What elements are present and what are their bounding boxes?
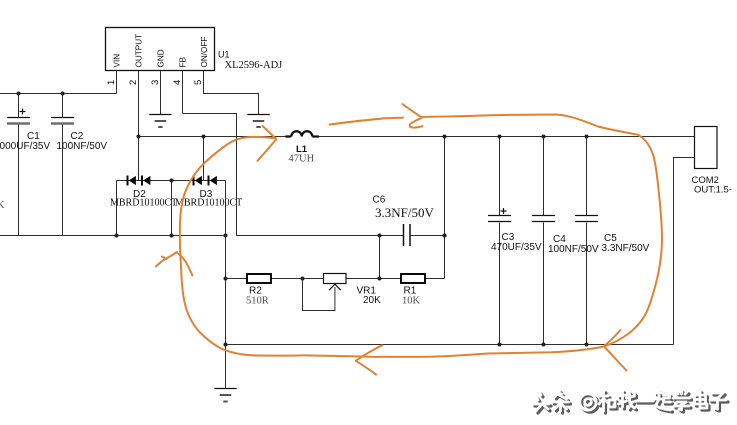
wire D3 center drop — [203, 137, 205, 181]
arrowhead into L1 — [263, 126, 276, 139]
arrowhead bottom mid — [356, 345, 382, 361]
watermark 头条@和我一起学电子 embossed — [533, 391, 728, 413]
svg-text:100NF/50V: 100NF/50V — [57, 141, 108, 152]
connector COM2 box — [695, 127, 718, 169]
svg-text:5: 5 — [193, 80, 204, 85]
wire vout right vertical — [444, 137, 446, 279]
svg-text:ON/OFF: ON/OFF — [200, 37, 209, 68]
svg-text:10K: 10K — [402, 296, 421, 307]
resistor R1 — [401, 274, 425, 283]
wire diode mid down — [171, 181, 173, 236]
wire ground input rail — [0, 235, 226, 237]
wire: left arc of loop — [180, 137, 276, 356]
wire diode row — [117, 180, 226, 182]
wire main ground stem — [225, 181, 227, 389]
pin 4 lead FB — [182, 71, 184, 114]
pin name labels U1 — [113, 34, 210, 68]
wire FB net — [183, 114, 404, 236]
svg-text:470UF/35V: 470UF/35V — [491, 242, 542, 253]
diode D2 (dual) — [127, 176, 151, 186]
ground (bottom) — [214, 389, 236, 402]
svg-text:3: 3 — [150, 80, 161, 85]
svg-text:20K: 20K — [363, 295, 381, 306]
wire COM2 return — [674, 158, 695, 345]
inductor L1 — [285, 131, 319, 136]
capacitor C5 leads — [586, 137, 588, 216]
svg-text:XL2596-ADJ: XL2596-ADJ — [225, 60, 283, 71]
svg-text:3.3NF/50V: 3.3NF/50V — [375, 205, 434, 220]
op-amp U1 regulator box XL2596 — [106, 28, 215, 71]
wire diode left down — [116, 181, 118, 236]
svg-text:K: K — [0, 200, 5, 211]
svg-text:1000UF/35V: 1000UF/35V — [0, 141, 50, 152]
svg-text:47UH: 47UH — [289, 154, 315, 165]
svg-text:U1: U1 — [218, 50, 230, 60]
arrowhead on top run — [403, 104, 422, 118]
capacitor C3 leads — [499, 137, 501, 216]
wire FB tap vertical — [379, 236, 381, 279]
svg-text:100NF/50V: 100NF/50V — [548, 244, 599, 255]
pin 5 lead ON/OFF — [204, 71, 259, 114]
wire: top run and right arc — [330, 115, 663, 347]
wire vout rail — [319, 136, 695, 138]
capacitor C4 — [532, 216, 599, 256]
arrowhead bottom right — [605, 330, 621, 346]
VR1 wiper arrow — [329, 284, 341, 290]
capacitor C1 leads — [18, 94, 20, 118]
svg-text:1: 1 — [106, 80, 117, 85]
capacitor C3 — [488, 208, 542, 253]
potentiometer VR1 — [324, 274, 347, 284]
pin 2 lead OUTPUT — [138, 71, 140, 181]
arrowhead up-left side — [156, 252, 177, 267]
capacitor C2 — [51, 118, 107, 153]
ground (ON/OFF) — [247, 115, 269, 128]
svg-text:C6: C6 — [373, 195, 386, 206]
svg-text:2: 2 — [128, 80, 139, 85]
capacitor C4 leads — [543, 137, 545, 216]
svg-text:FB: FB — [179, 56, 188, 67]
diode D3 (dual) — [193, 176, 217, 186]
wire VR1 wiper loop — [303, 279, 335, 311]
svg-text:3.3NF/50V: 3.3NF/50V — [602, 243, 650, 254]
wire: bottom run of loop — [253, 347, 604, 357]
node junction dots — [17, 92, 589, 347]
pin number labels 1-5 — [106, 80, 204, 85]
wire output ground rail — [226, 344, 674, 346]
svg-text:MBRD10100CT: MBRD10100CT — [110, 198, 177, 209]
resistor R2 — [247, 274, 271, 283]
ground (pin 3) — [149, 115, 171, 128]
pin 3 lead GND — [160, 71, 162, 114]
wire divider row — [226, 278, 247, 280]
svg-text:510R: 510R — [246, 296, 269, 307]
pin 1 lead VIN — [116, 71, 118, 94]
svg-text:VIN: VIN — [113, 54, 122, 68]
svg-text:OUTPUT: OUTPUT — [135, 34, 144, 68]
svg-text:GND: GND — [157, 49, 166, 67]
orange annotation: current loop — [156, 104, 662, 375]
wire input rail — [0, 93, 117, 95]
wire C6 right segment — [410, 235, 445, 237]
capacitor C6 — [404, 224, 411, 246]
capacitor C5 — [575, 216, 650, 255]
svg-text:MBRD10100CT: MBRD10100CT — [175, 198, 242, 209]
capacitor C2 leads — [62, 94, 64, 118]
wire switch rail — [139, 136, 286, 138]
svg-text:OUT:1.5-: OUT:1.5- — [694, 185, 732, 196]
capacitor C1 — [0, 109, 50, 153]
svg-text:4: 4 — [172, 80, 183, 85]
